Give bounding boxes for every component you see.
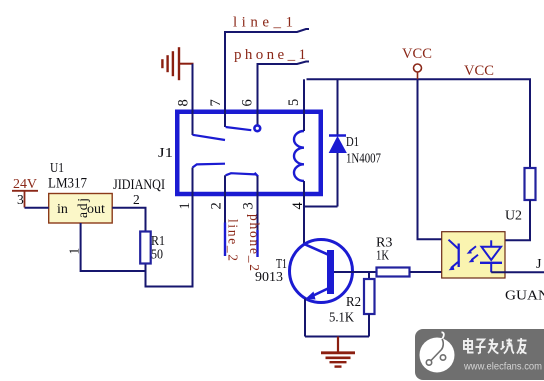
- pin number 3: [241, 202, 257, 209]
- relay bottom armature (pin 1): [193, 164, 226, 168]
- svg-text:line_2: line_2: [226, 219, 241, 261]
- chinese glyph 烧: [501, 339, 514, 354]
- svg-text:R2: R2: [346, 295, 361, 310]
- wire T1 emitter down: [304, 299, 306, 337]
- chinese glyph 友: [517, 338, 527, 354]
- port 24V: [12, 177, 38, 208]
- wire R2 bottom: [368, 314, 370, 337]
- svg-text:JIDIANQI: JIDIANQI: [113, 177, 165, 193]
- logo disc: [420, 338, 455, 373]
- wire R2 top: [368, 272, 370, 279]
- svg-text:phone_1: phone_1: [234, 47, 306, 63]
- wire pin 2 stub: [224, 175, 226, 222]
- svg-text:line_1: line_1: [233, 15, 293, 31]
- svg-text:2: 2: [209, 202, 225, 209]
- wire 24V to U1.in: [25, 207, 49, 209]
- U1 regulator LM317: [48, 161, 112, 223]
- svg-text:GUAN: GUAN: [505, 289, 544, 304]
- watermark box: [415, 329, 544, 380]
- optocoupler U2: [442, 209, 522, 279]
- pin number 7: [208, 99, 224, 106]
- resistor R3: [376, 236, 410, 277]
- svg-text:phone_2: phone_2: [247, 214, 262, 271]
- wire branch to D1: [304, 206, 338, 208]
- node line_2 label: [226, 219, 241, 261]
- wire line_1: [225, 29, 309, 127]
- VCC rail: [307, 79, 531, 168]
- svg-text:50: 50: [151, 248, 163, 263]
- relay bottom contact tick: [255, 173, 259, 177]
- light arrows: [470, 246, 477, 251]
- svg-text:VCC: VCC: [402, 46, 432, 62]
- svg-text:6: 6: [240, 99, 256, 106]
- wire R1 bottom: [145, 262, 147, 287]
- wire emitter rail to R2 bottom: [305, 336, 369, 338]
- chinese glyph 子: [475, 340, 485, 354]
- wire VCC down to opto collector: [418, 79, 450, 239]
- wire LED cathode to J: [491, 271, 544, 273]
- relay coil: [294, 131, 304, 181]
- svg-text:24V: 24V: [13, 177, 37, 192]
- pin number 6: [240, 99, 256, 106]
- svg-text:3: 3: [17, 192, 24, 207]
- transistor T1: [255, 240, 353, 303]
- wire relay pin 5 / coil / pin 4 to collector: [303, 79, 305, 131]
- wire T1 base to R3: [334, 271, 376, 273]
- svg-text:5: 5: [286, 99, 302, 106]
- wire R3 to opto emitter: [410, 271, 450, 273]
- resistor on right rail: [491, 168, 536, 247]
- wire U1.out to R1: [112, 208, 145, 232]
- chinese glyph 发: [488, 339, 498, 354]
- svg-text:8: 8: [176, 99, 192, 106]
- diode D1: [329, 79, 381, 206]
- relay contact point pin 6: [254, 125, 260, 131]
- svg-text:adj: adj: [75, 198, 90, 218]
- ground (top left, sideways earth): [162, 47, 193, 80]
- svg-text:2: 2: [133, 192, 140, 207]
- svg-text:D1: D1: [346, 135, 359, 150]
- svg-text:LM317: LM317: [48, 176, 87, 192]
- svg-text:1K: 1K: [376, 249, 389, 264]
- svg-text:U2: U2: [505, 209, 522, 224]
- svg-text:1: 1: [177, 202, 193, 209]
- pin number 5: [286, 99, 302, 106]
- svg-text:www.elecfans.com: www.elecfans.com: [463, 362, 542, 373]
- pin number 8: [176, 99, 192, 106]
- svg-text:in: in: [57, 202, 68, 217]
- wire pin8 to ground: [192, 64, 194, 135]
- svg-text:5.1K: 5.1K: [329, 311, 354, 326]
- wire phone_1: [258, 62, 310, 126]
- relay contact lever pin 7: [226, 127, 252, 130]
- pin number 4: [290, 202, 306, 210]
- chinese glyph dian: [464, 338, 474, 353]
- node phone_2 label: [247, 214, 262, 271]
- resistor R2: [329, 279, 375, 326]
- svg-text:7: 7: [208, 99, 224, 106]
- resistor R1: [140, 232, 165, 264]
- wire pin 3 stub: [257, 176, 259, 230]
- LED: [482, 247, 502, 260]
- svg-text:9013: 9013: [255, 270, 283, 285]
- phototransistor: [458, 244, 460, 268]
- ground (bottom): [321, 337, 355, 367]
- svg-text:1N4007: 1N4007: [346, 152, 381, 167]
- VCC port circle: [414, 64, 422, 72]
- relay bottom lever (pin 2): [226, 173, 256, 175]
- wire U1.adj down and right: [81, 223, 146, 271]
- pin number 2: [209, 202, 225, 209]
- svg-text:J1: J1: [158, 146, 173, 161]
- svg-text:3: 3: [241, 202, 257, 209]
- svg-text:VCC: VCC: [464, 63, 494, 79]
- svg-text:1: 1: [67, 248, 82, 255]
- svg-text:U1: U1: [50, 161, 64, 176]
- wire relay pin 1 to R1/adj junction: [146, 168, 193, 287]
- pin number 1 of U1: [67, 248, 82, 255]
- relay J1 body: [158, 112, 321, 194]
- pin number 1: [177, 202, 193, 209]
- relay top contact armature (pin 8): [193, 135, 226, 140]
- svg-text:J: J: [536, 257, 542, 272]
